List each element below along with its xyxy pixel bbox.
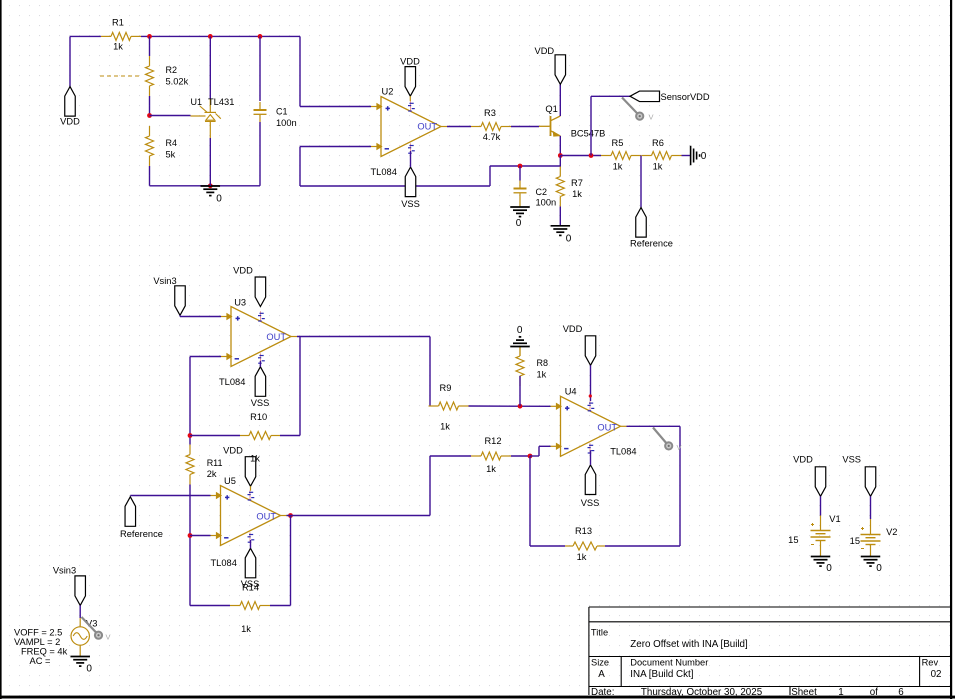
svg-text:TL084: TL084	[371, 167, 397, 177]
svg-text:OUT: OUT	[597, 423, 617, 433]
svg-text:Size: Size	[591, 658, 609, 668]
svg-text:R12: R12	[484, 436, 501, 446]
svg-text:0: 0	[826, 563, 832, 574]
svg-text:1k: 1k	[572, 189, 582, 199]
svg-text:U4: U4	[565, 387, 577, 397]
svg-text:C1: C1	[276, 107, 288, 117]
svg-text:R2: R2	[166, 65, 178, 75]
svg-text:2k: 2k	[207, 469, 217, 479]
svg-text:V: V	[106, 633, 111, 642]
svg-text:TL084: TL084	[211, 558, 237, 568]
svg-text:VDD: VDD	[223, 446, 243, 456]
svg-text:5k: 5k	[166, 150, 176, 160]
svg-text:15: 15	[788, 535, 798, 545]
svg-text:U5: U5	[224, 476, 236, 486]
svg-text:V: V	[649, 113, 654, 122]
svg-text:0: 0	[876, 563, 882, 574]
svg-text:VSS: VSS	[581, 498, 600, 508]
svg-text:1k: 1k	[653, 162, 663, 172]
svg-text:VDD: VDD	[535, 46, 555, 56]
svg-text:OUT: OUT	[266, 332, 286, 342]
svg-text:R14: R14	[242, 583, 259, 593]
svg-text:VDD: VDD	[400, 57, 420, 67]
svg-text:Q1: Q1	[545, 104, 557, 114]
svg-text:VSS: VSS	[842, 455, 861, 465]
svg-text:VSS: VSS	[251, 398, 270, 408]
svg-text:R1: R1	[112, 18, 124, 28]
svg-text:A: A	[598, 669, 605, 680]
svg-text:0: 0	[701, 151, 707, 162]
svg-text:1k: 1k	[440, 422, 450, 432]
svg-text:1k: 1k	[113, 42, 123, 52]
svg-text:U2: U2	[382, 87, 394, 97]
svg-text:INA [Build Ckt]: INA [Build Ckt]	[630, 669, 693, 680]
svg-text:Rev: Rev	[922, 658, 939, 668]
svg-text:BC547B: BC547B	[571, 129, 606, 139]
svg-text:Reference: Reference	[630, 239, 673, 249]
svg-text:SensorVDD: SensorVDD	[661, 92, 710, 102]
svg-text:Document Number: Document Number	[630, 658, 708, 668]
svg-text:VOFF = 2.5: VOFF = 2.5	[14, 628, 62, 638]
svg-text:1k: 1k	[486, 464, 496, 474]
svg-text:AC =: AC =	[30, 656, 51, 666]
svg-text:1k: 1k	[250, 453, 260, 463]
svg-text:VSS: VSS	[401, 199, 420, 209]
svg-text:VDD: VDD	[233, 266, 253, 276]
svg-text:R6: R6	[652, 138, 664, 148]
svg-text:0: 0	[86, 664, 92, 675]
svg-text:R9: R9	[440, 383, 452, 393]
svg-text:0: 0	[216, 194, 222, 205]
svg-text:R11: R11	[207, 458, 223, 468]
svg-text:15: 15	[850, 536, 860, 546]
svg-text:100n: 100n	[536, 198, 557, 208]
svg-text:R5: R5	[612, 138, 624, 148]
svg-text:TL084: TL084	[219, 377, 245, 387]
svg-text:1k: 1k	[537, 370, 547, 380]
svg-text:VAMPL = 2: VAMPL = 2	[14, 637, 60, 647]
svg-text:VDD: VDD	[563, 324, 583, 334]
svg-text:R7: R7	[571, 178, 583, 188]
svg-text:R4: R4	[166, 138, 178, 148]
svg-text:TL431: TL431	[208, 97, 234, 107]
svg-text:OUT: OUT	[256, 512, 276, 522]
svg-text:02: 02	[931, 669, 942, 680]
svg-text:R3: R3	[484, 108, 496, 118]
svg-text:FREQ = 4k: FREQ = 4k	[21, 647, 68, 657]
svg-text:Reference: Reference	[120, 529, 163, 539]
svg-text:C2: C2	[536, 187, 548, 197]
svg-text:1k: 1k	[613, 162, 623, 172]
svg-text:U3: U3	[234, 298, 246, 308]
svg-text:Zero Offset with INA [Build]: Zero Offset with INA [Build]	[630, 639, 748, 650]
svg-text:100n: 100n	[276, 118, 297, 128]
svg-text:1k: 1k	[577, 552, 587, 562]
svg-text:R13: R13	[575, 526, 592, 536]
svg-text:Vsin3: Vsin3	[153, 276, 176, 286]
svg-text:0: 0	[566, 234, 572, 245]
svg-text:V1: V1	[829, 514, 840, 524]
svg-text:VDD: VDD	[793, 455, 813, 465]
svg-text:Title: Title	[591, 628, 608, 638]
svg-text:1k: 1k	[241, 624, 251, 634]
svg-text:R8: R8	[537, 358, 549, 368]
svg-text:VDD: VDD	[60, 117, 80, 127]
svg-text:0: 0	[517, 325, 523, 336]
svg-text:V: V	[677, 443, 682, 452]
svg-text:TL084: TL084	[610, 447, 636, 457]
svg-text:V2: V2	[886, 527, 897, 537]
svg-text:0: 0	[516, 218, 522, 229]
svg-text:U1: U1	[191, 97, 203, 107]
svg-text:OUT: OUT	[417, 122, 437, 132]
svg-text:5.02k: 5.02k	[166, 77, 189, 87]
svg-text:Vsin3: Vsin3	[53, 566, 76, 576]
svg-text:4.7k: 4.7k	[483, 132, 501, 142]
svg-text:R10: R10	[250, 412, 267, 422]
